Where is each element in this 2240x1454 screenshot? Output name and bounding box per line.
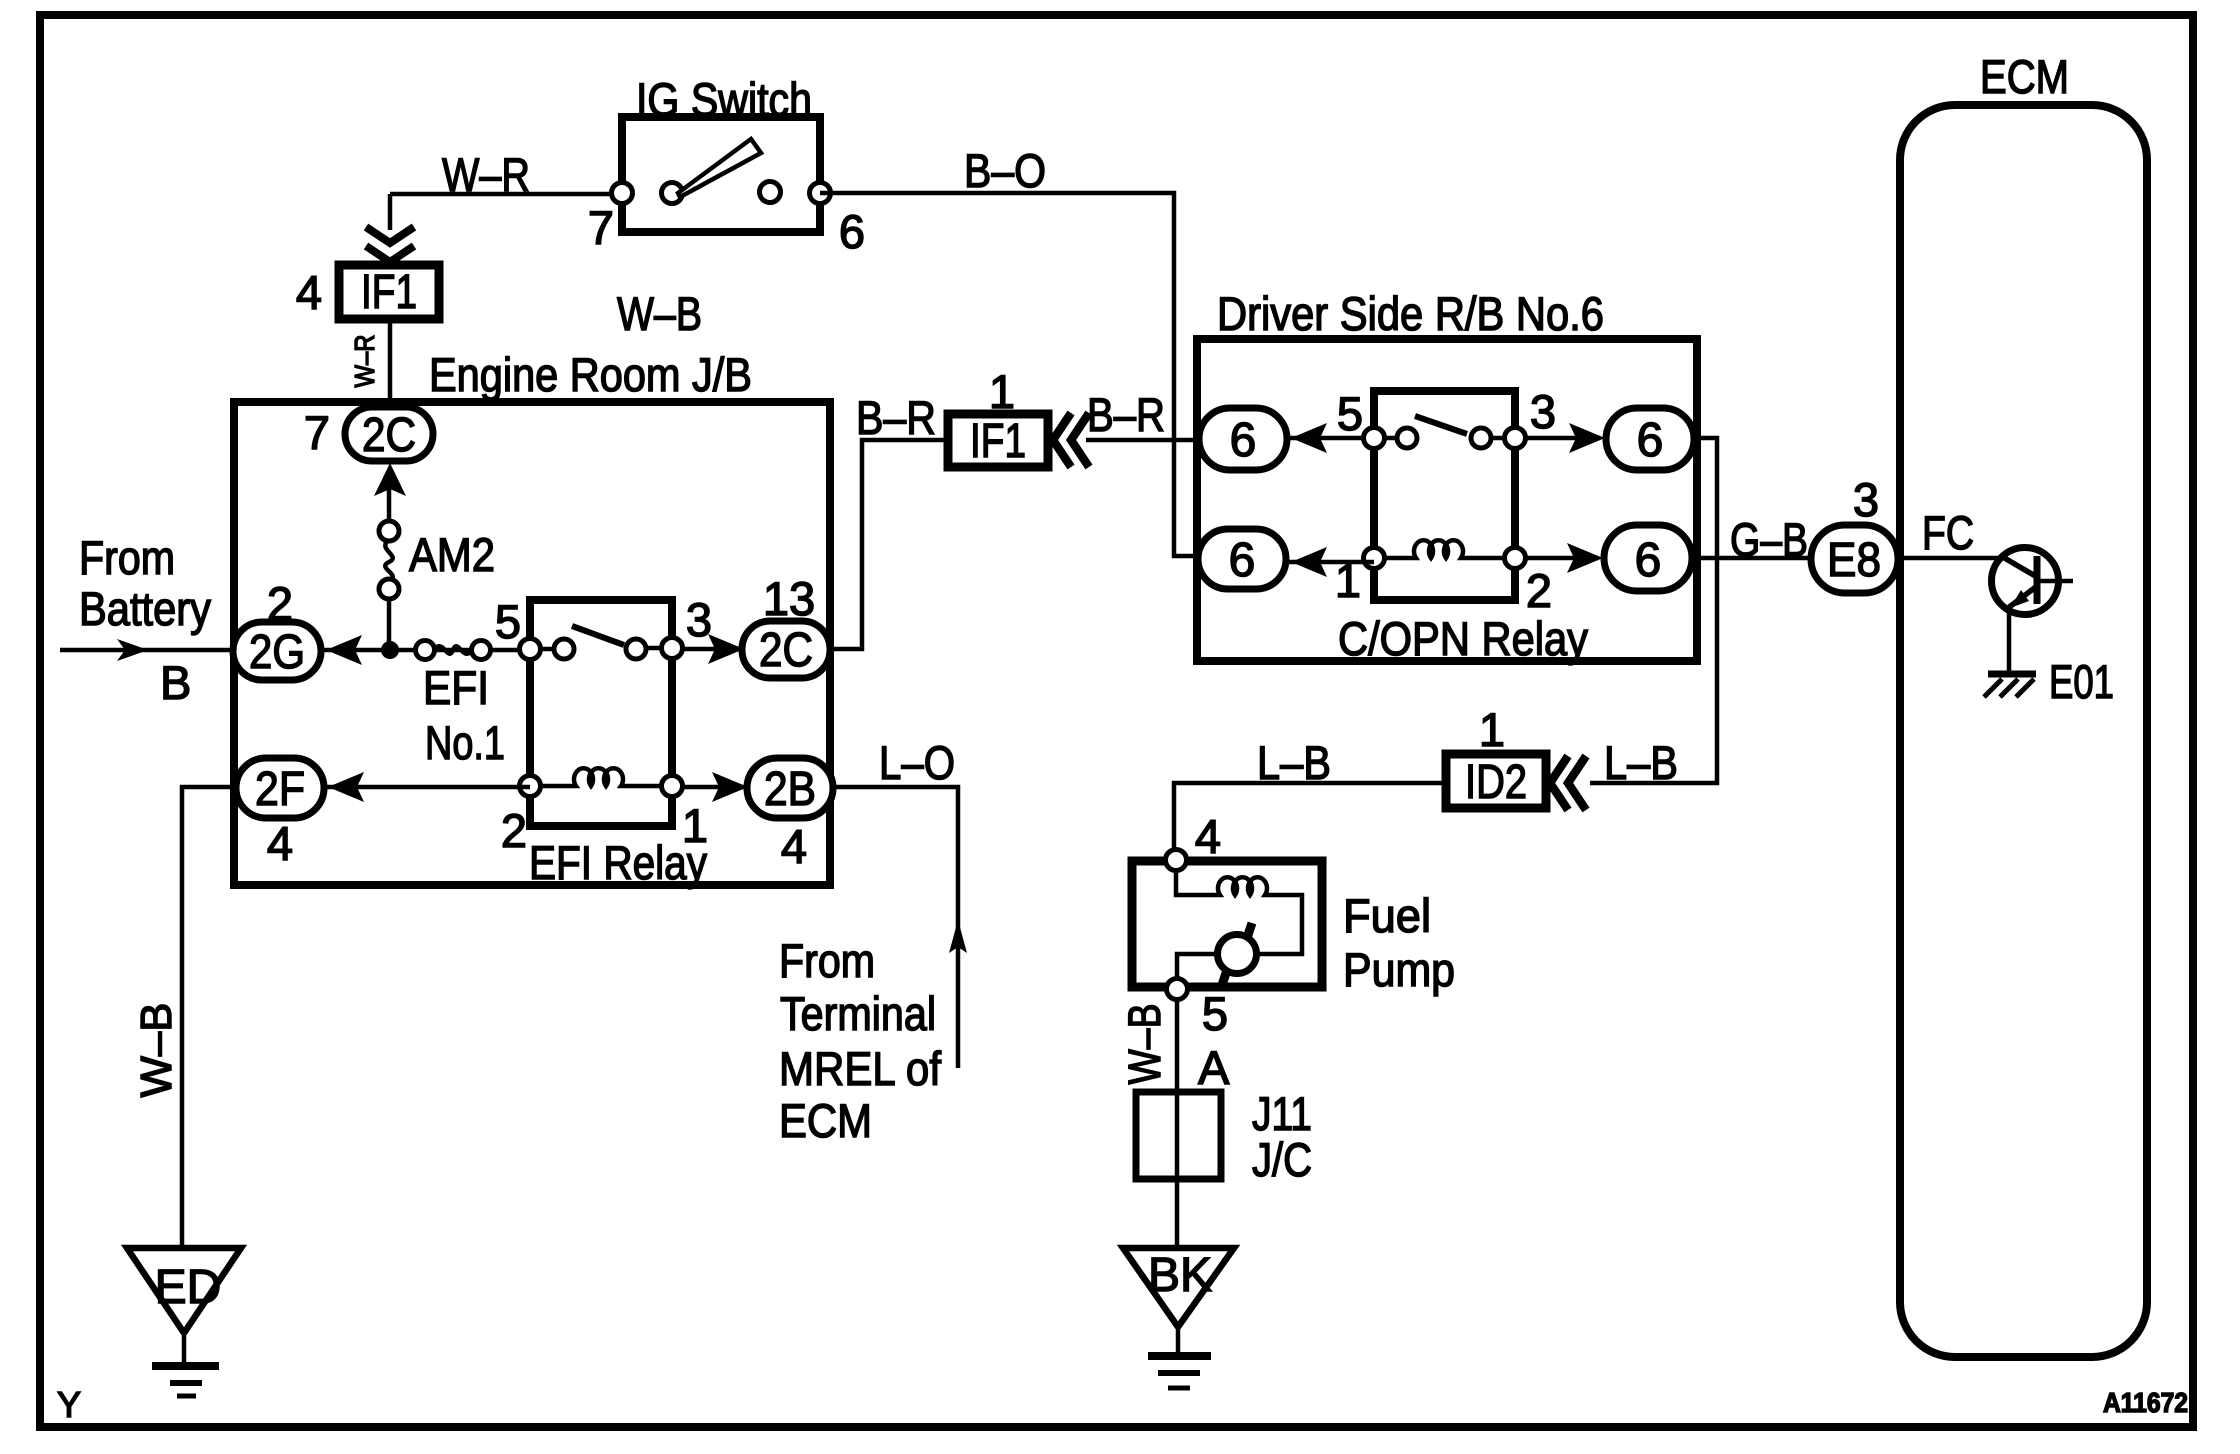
pin 5 label [1337, 387, 1363, 440]
wire from battery [60, 648, 234, 653]
wire B-O from IG switch [820, 193, 1199, 556]
C/OPN terminal 5 [1364, 428, 1385, 449]
connector 6 upper right oval [1606, 408, 1694, 470]
label L-B right [1604, 736, 1678, 789]
connector 2F pin 4 oval [236, 758, 324, 818]
svg-text:L–B: L–B [1257, 736, 1331, 789]
svg-text:2: 2 [1526, 564, 1552, 617]
svg-text:From: From [79, 531, 175, 584]
pin 7 label [588, 201, 614, 254]
svg-text:2G: 2G [249, 626, 305, 679]
battery arrow [117, 639, 148, 661]
label L-O [879, 736, 955, 789]
label EFI Relay [529, 836, 707, 889]
svg-text:2C: 2C [362, 409, 416, 462]
wire W-B from pump to BK ground [1175, 999, 1180, 1245]
svg-text:IF1: IF1 [970, 415, 1026, 468]
connector chevrons right of IF1 [1053, 413, 1089, 467]
fuel pump terminal 5 [1167, 979, 1188, 1000]
fuel pump terminal 4 [1166, 850, 1187, 871]
label Driver Side R/B No.6 [1217, 287, 1604, 340]
svg-text:7: 7 [588, 201, 614, 254]
pin 3 label [1530, 385, 1556, 438]
wire relay 3 to 2C [682, 647, 742, 652]
svg-text:3: 3 [1853, 473, 1879, 526]
label ECM [1980, 50, 2069, 103]
svg-text:B–R: B–R [856, 391, 936, 444]
IG switch terminal 7 [612, 183, 633, 204]
C/OPN coil [1384, 540, 1505, 558]
svg-text:Battery: Battery [79, 582, 211, 635]
connector 6 lower left oval [1198, 529, 1286, 589]
label A [1198, 1041, 1230, 1094]
label B [160, 656, 191, 709]
IG switch box [622, 117, 820, 232]
svg-text:BK: BK [1148, 1249, 1212, 1302]
label C/OPN Relay [1338, 612, 1588, 665]
label W-R rotated [349, 335, 380, 388]
C/OPN coil terminal 2 [1505, 548, 1526, 569]
svg-text:Terminal: Terminal [780, 987, 936, 1040]
C/OPN contact left [1384, 428, 1505, 448]
svg-text:6: 6 [1230, 414, 1257, 467]
svg-text:5: 5 [495, 595, 521, 648]
svg-text:5: 5 [1202, 987, 1228, 1040]
relay switch blade [572, 626, 624, 645]
fuel pump box [1132, 861, 1322, 987]
svg-text:J/C: J/C [1252, 1133, 1312, 1186]
wire coil 1 to 6 [1286, 560, 1374, 565]
relay coil terminal 2 [520, 776, 541, 797]
svg-text:From: From [779, 934, 875, 987]
svg-text:C/OPN Relay: C/OPN Relay [1338, 612, 1588, 665]
arrow into 2B [712, 772, 748, 802]
svg-text:Pump: Pump [1343, 943, 1455, 996]
wire C/OPN 3 to 6 [1525, 436, 1600, 441]
relay terminal 5 [520, 639, 541, 660]
svg-text:L–B: L–B [1604, 736, 1678, 789]
svg-text:13: 13 [763, 572, 815, 625]
wire B-R from 2C 13 up to IF1 [830, 440, 944, 649]
wire W-R from IF1 to IG switch [390, 192, 622, 197]
wire W-R from IF1 down to 2C [388, 319, 393, 407]
connector 6 upper left oval [1199, 408, 1287, 470]
wire from 6 upper right down to ID2 [1590, 438, 1717, 783]
wire L-B from ID2 to fuel pump [1174, 783, 1446, 850]
svg-text:4: 4 [781, 820, 807, 873]
svg-text:Driver Side R/B No.6: Driver Side R/B No.6 [1217, 287, 1604, 340]
arrow into 6 upper right [1569, 423, 1605, 453]
svg-text:FC: FC [1922, 506, 1974, 559]
svg-text:W–B: W–B [1119, 1004, 1170, 1085]
pin 5 label [495, 595, 521, 648]
Engine Room J/B box [234, 402, 830, 885]
svg-text:W–R: W–R [349, 335, 380, 388]
wire coil 2 to 6 [1525, 556, 1598, 561]
label J11 J/C [1252, 1087, 1312, 1186]
svg-text:E8: E8 [1827, 534, 1881, 587]
svg-text:3: 3 [686, 593, 712, 646]
transistor emitter wire [2007, 611, 2012, 674]
svg-text:5: 5 [1337, 387, 1363, 440]
svg-text:IG Switch: IG Switch [636, 73, 812, 126]
pin 2 label [267, 577, 293, 630]
label L-B left [1257, 736, 1331, 789]
wire to C/OPN pin 5 [1287, 436, 1374, 441]
svg-text:Engine Room J/B: Engine Room J/B [429, 348, 752, 401]
svg-text:G–B: G–B [1730, 513, 1808, 566]
svg-text:W–B: W–B [617, 287, 702, 340]
wire relay 1 to 2B [682, 785, 748, 790]
pin 1 label above IF1 [989, 365, 1015, 418]
pin 4 label [267, 817, 293, 870]
wire AM2 to junction [387, 599, 392, 650]
relay contact right [626, 639, 646, 659]
relay contact left [540, 639, 662, 659]
label FC [1922, 506, 1974, 559]
connector 2B pin 4 oval [747, 758, 833, 818]
wire from top wire down to connector IF1 [388, 194, 393, 230]
svg-text:6: 6 [1637, 414, 1664, 467]
pin 4 label [1195, 810, 1221, 863]
svg-text:No.1: No.1 [425, 716, 505, 769]
ground BK stem [1176, 1330, 1181, 1354]
fuel pump motor [1218, 923, 1257, 985]
pin 13 label [763, 572, 815, 625]
IG switch terminal 6 [810, 183, 831, 204]
svg-text:1: 1 [1479, 703, 1505, 756]
ground ED bars [152, 1366, 219, 1396]
svg-text:B: B [160, 656, 191, 709]
ground BK bars [1148, 1356, 1211, 1388]
label Y [57, 1384, 81, 1425]
IG switch contact right [760, 182, 781, 203]
EFI relay box [530, 600, 672, 826]
svg-text:L–O: L–O [879, 736, 955, 789]
pin 1 label [1335, 554, 1361, 607]
svg-text:2F: 2F [255, 763, 305, 816]
arrow into 2C pin 13 [708, 634, 744, 664]
relay coil [540, 768, 662, 786]
arrow into 6 upper left [1291, 423, 1327, 453]
junction node [381, 641, 399, 659]
svg-text:3: 3 [1530, 385, 1556, 438]
connector chevrons right of ID2 [1550, 756, 1586, 810]
svg-text:2: 2 [501, 804, 527, 857]
svg-text:2B: 2B [764, 763, 816, 816]
svg-text:ECM: ECM [1980, 50, 2069, 103]
IG switch lever [678, 139, 761, 197]
pin 6 label [839, 205, 865, 258]
wire arrow to AM2 [387, 487, 392, 521]
arrow into 6 lower right [1567, 543, 1603, 573]
connector ID2 pin 1 box [1446, 754, 1546, 809]
ECM box [1900, 105, 2147, 1357]
pin 3 label [1853, 473, 1879, 526]
svg-text:Fuel: Fuel [1343, 889, 1431, 942]
svg-text:7: 7 [304, 406, 330, 459]
fuel pump motor to terminal 5 [1177, 954, 1218, 978]
pin 5 label [1202, 987, 1228, 1040]
svg-text:6: 6 [1635, 534, 1662, 587]
arrow up MREL [949, 920, 967, 953]
svg-text:ECM: ECM [779, 1094, 872, 1147]
label W-R [442, 148, 530, 201]
connector 2C pin 7 oval [345, 407, 433, 462]
svg-text:A: A [1198, 1041, 1230, 1094]
label B-R left [856, 391, 936, 444]
label W-B under switch [617, 287, 702, 340]
wire G-B from 6 lower right to E8 [1692, 556, 1811, 561]
relay terminal 3 [662, 638, 683, 659]
wire relay 2 to 2F [324, 785, 530, 790]
svg-text:4: 4 [296, 266, 322, 319]
svg-text:ID2: ID2 [1465, 756, 1527, 809]
connector 2C pin 13 oval [742, 621, 830, 678]
svg-text:A11672: A11672 [2103, 1387, 2188, 1418]
pin 2 label [1526, 564, 1552, 617]
svg-text:ED: ED [155, 1261, 222, 1314]
transistor FC driver [1992, 548, 2074, 615]
svg-text:AM2: AM2 [409, 528, 495, 581]
C/OPN terminal 3 [1505, 428, 1526, 449]
label EFI No.1 [423, 661, 505, 769]
svg-text:4: 4 [1195, 810, 1221, 863]
fuse EFI No.1 [416, 641, 491, 660]
svg-text:2C: 2C [759, 624, 813, 677]
svg-text:6: 6 [1229, 534, 1256, 587]
svg-text:W–R: W–R [442, 148, 530, 201]
svg-text:B–R: B–R [1087, 388, 1165, 441]
label W-B rotated [132, 1003, 181, 1098]
pin 1 label above ID2 [1479, 703, 1505, 756]
connector 6 lower right oval [1604, 525, 1692, 591]
arrow into 2F [328, 772, 364, 802]
Driver Side R/B No.6 box [1197, 339, 1697, 661]
pin 1 label [682, 799, 708, 852]
label B-O [964, 144, 1046, 197]
C/OPN contact right [1471, 428, 1491, 448]
svg-text:EFI Relay: EFI Relay [529, 836, 707, 889]
ground ED stem [182, 1336, 187, 1363]
label Fuel Pump [1343, 889, 1455, 996]
fuel pump coil wiring [1176, 870, 1302, 954]
svg-text:EFI: EFI [423, 661, 489, 714]
wire G-B into E8 [1898, 556, 2002, 561]
label W-B rotated [1119, 1004, 1170, 1085]
svg-text:IF1: IF1 [361, 266, 417, 319]
connector 2G pin 2 oval [233, 622, 321, 680]
svg-text:W–B: W–B [132, 1003, 181, 1098]
label B-R right [1087, 388, 1165, 441]
junction connector J11 box [1136, 1092, 1221, 1179]
fuse AM2 [379, 521, 399, 599]
label Engine Room J/B [429, 348, 752, 401]
svg-text:4: 4 [267, 817, 293, 870]
wire 2G to relay pin 5 [321, 648, 530, 653]
wire W-B from 2F to ED ground [182, 787, 236, 1245]
relay coil terminal 1 [662, 776, 683, 797]
arrow up to 2C [374, 463, 406, 496]
C/OPN coil terminal 1 [1364, 548, 1385, 569]
svg-text:6: 6 [839, 205, 865, 258]
svg-text:E01: E01 [2049, 655, 2114, 708]
label E01 [2049, 655, 2114, 708]
connector chevrons above IF1 [366, 227, 414, 262]
pin 4 label [296, 266, 322, 319]
svg-text:Y: Y [57, 1384, 81, 1425]
connector IF1 pin 1 box [948, 414, 1048, 468]
pin 3 label [686, 593, 712, 646]
C/OPN relay box [1374, 391, 1515, 600]
connector E8 pin 3 oval [1811, 525, 1898, 593]
pin 7 label [304, 406, 330, 459]
IG switch contact left [662, 183, 683, 204]
label From Terminal MREL of ECM [779, 934, 942, 1147]
svg-text:2: 2 [267, 577, 293, 630]
ground ED triangle [127, 1248, 241, 1333]
label A11672 [2103, 1387, 2188, 1418]
wire L-O from 2B [833, 787, 958, 1068]
label From Battery [79, 531, 211, 635]
connector IF1 pin 4 box [339, 265, 439, 319]
ground E01 [1984, 674, 2036, 697]
label G-B [1730, 513, 1808, 566]
pin 4 label [781, 820, 807, 873]
pin 2 label [501, 804, 527, 857]
ground BK triangle [1123, 1248, 1234, 1327]
label AM2 [409, 528, 495, 581]
arrow into 2G [326, 635, 362, 665]
wire B-R to driver side R/B [1086, 438, 1199, 443]
arrow into 6 lower left [1291, 547, 1327, 577]
label IG Switch [636, 73, 812, 126]
C/OPN switch blade [1415, 416, 1467, 434]
svg-text:MREL of: MREL of [779, 1042, 942, 1095]
svg-text:B–O: B–O [964, 144, 1046, 197]
